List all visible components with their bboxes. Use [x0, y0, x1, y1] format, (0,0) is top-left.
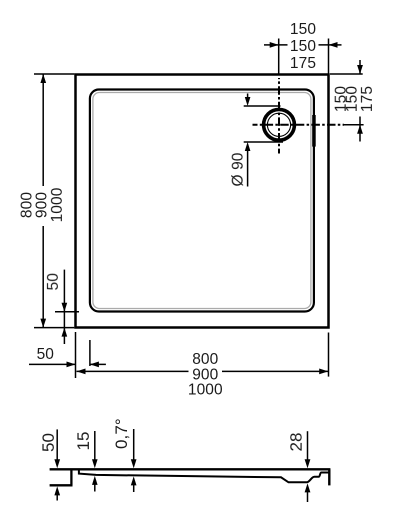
dim 50 line vertical: [63, 270, 65, 344]
section dim 0,7 arrow top: [133, 429, 135, 460]
section dim 15 arrow top: [94, 431, 96, 460]
dim ø90 tangent bottom: [244, 141, 283, 143]
dim 50 (left bottom, vertical) extension: [55, 311, 79, 313]
section top surface line: [50, 468, 331, 470]
bottom dim line 800/900/1000: [77, 370, 329, 372]
tray inner rim edge (rounded): [90, 90, 314, 312]
svg-text:800: 800: [192, 351, 218, 368]
right dim line 150/150/175: [359, 60, 361, 74]
tray outer square (plan view): [76, 75, 329, 328]
section dim 28 arrow top: [307, 431, 309, 460]
svg-text:0,7°: 0,7°: [112, 418, 131, 449]
svg-text:50: 50: [37, 346, 55, 363]
dim ø90 arrow top: [247, 94, 249, 99]
drain outer circle: [264, 109, 295, 140]
left dim extension bottom: [34, 327, 74, 329]
svg-text:Ø 90: Ø 90: [230, 152, 247, 186]
section right skirt: [328, 469, 330, 485]
bottom dim extension right: [328, 333, 330, 377]
section slab bottom with drain recess: [79, 470, 329, 482]
drain center line vertical: [278, 78, 280, 154]
bottom dim extension left: [75, 332, 77, 378]
svg-text:28: 28: [287, 432, 306, 451]
inner floor edge (gray): [93, 93, 311, 309]
svg-text:50: 50: [45, 273, 62, 291]
dim 50 (bottom horizontal): [29, 363, 76, 365]
drain center line horizontal: [253, 124, 345, 126]
top dim line 150/150/175: [264, 44, 279, 46]
svg-text:175: 175: [359, 86, 376, 112]
section dim 28 arrow bottom: [305, 483, 311, 492]
svg-text:50: 50: [39, 433, 58, 452]
svg-text:150: 150: [290, 38, 316, 55]
left dim extension top: [34, 73, 74, 75]
section dim 50 arrow top: [56, 429, 58, 460]
section dim 50 arrow bottom: [54, 486, 60, 495]
label 150 mid (on line): [288, 38, 319, 53]
section left bottom ref: [50, 484, 73, 486]
section dim 0,7 arrow bottom: [131, 476, 137, 485]
right dim extension top (square edge extended): [330, 73, 363, 75]
dim ø90 arrow bottom and leader: [245, 142, 251, 151]
top dim extension line right (square edge): [328, 39, 330, 75]
bottom dim extension inner-left: [89, 340, 91, 366]
drain recess bar on right rim: [312, 115, 316, 147]
svg-text:175: 175: [290, 55, 316, 72]
section left wall: [70, 469, 72, 485]
svg-text:1000: 1000: [49, 187, 66, 222]
label 900 bottom (on line): [189, 367, 223, 381]
drain inner circle: [267, 113, 290, 136]
top dim extension line left (drain center): [278, 39, 280, 75]
svg-text:15: 15: [74, 431, 93, 450]
section dim 15 arrow bottom: [92, 476, 98, 485]
svg-text:1000: 1000: [188, 382, 223, 399]
svg-text:150: 150: [290, 21, 316, 38]
dim ø90 tangent top: [244, 105, 281, 107]
left dim line 800/900/1000: [42, 74, 44, 186]
